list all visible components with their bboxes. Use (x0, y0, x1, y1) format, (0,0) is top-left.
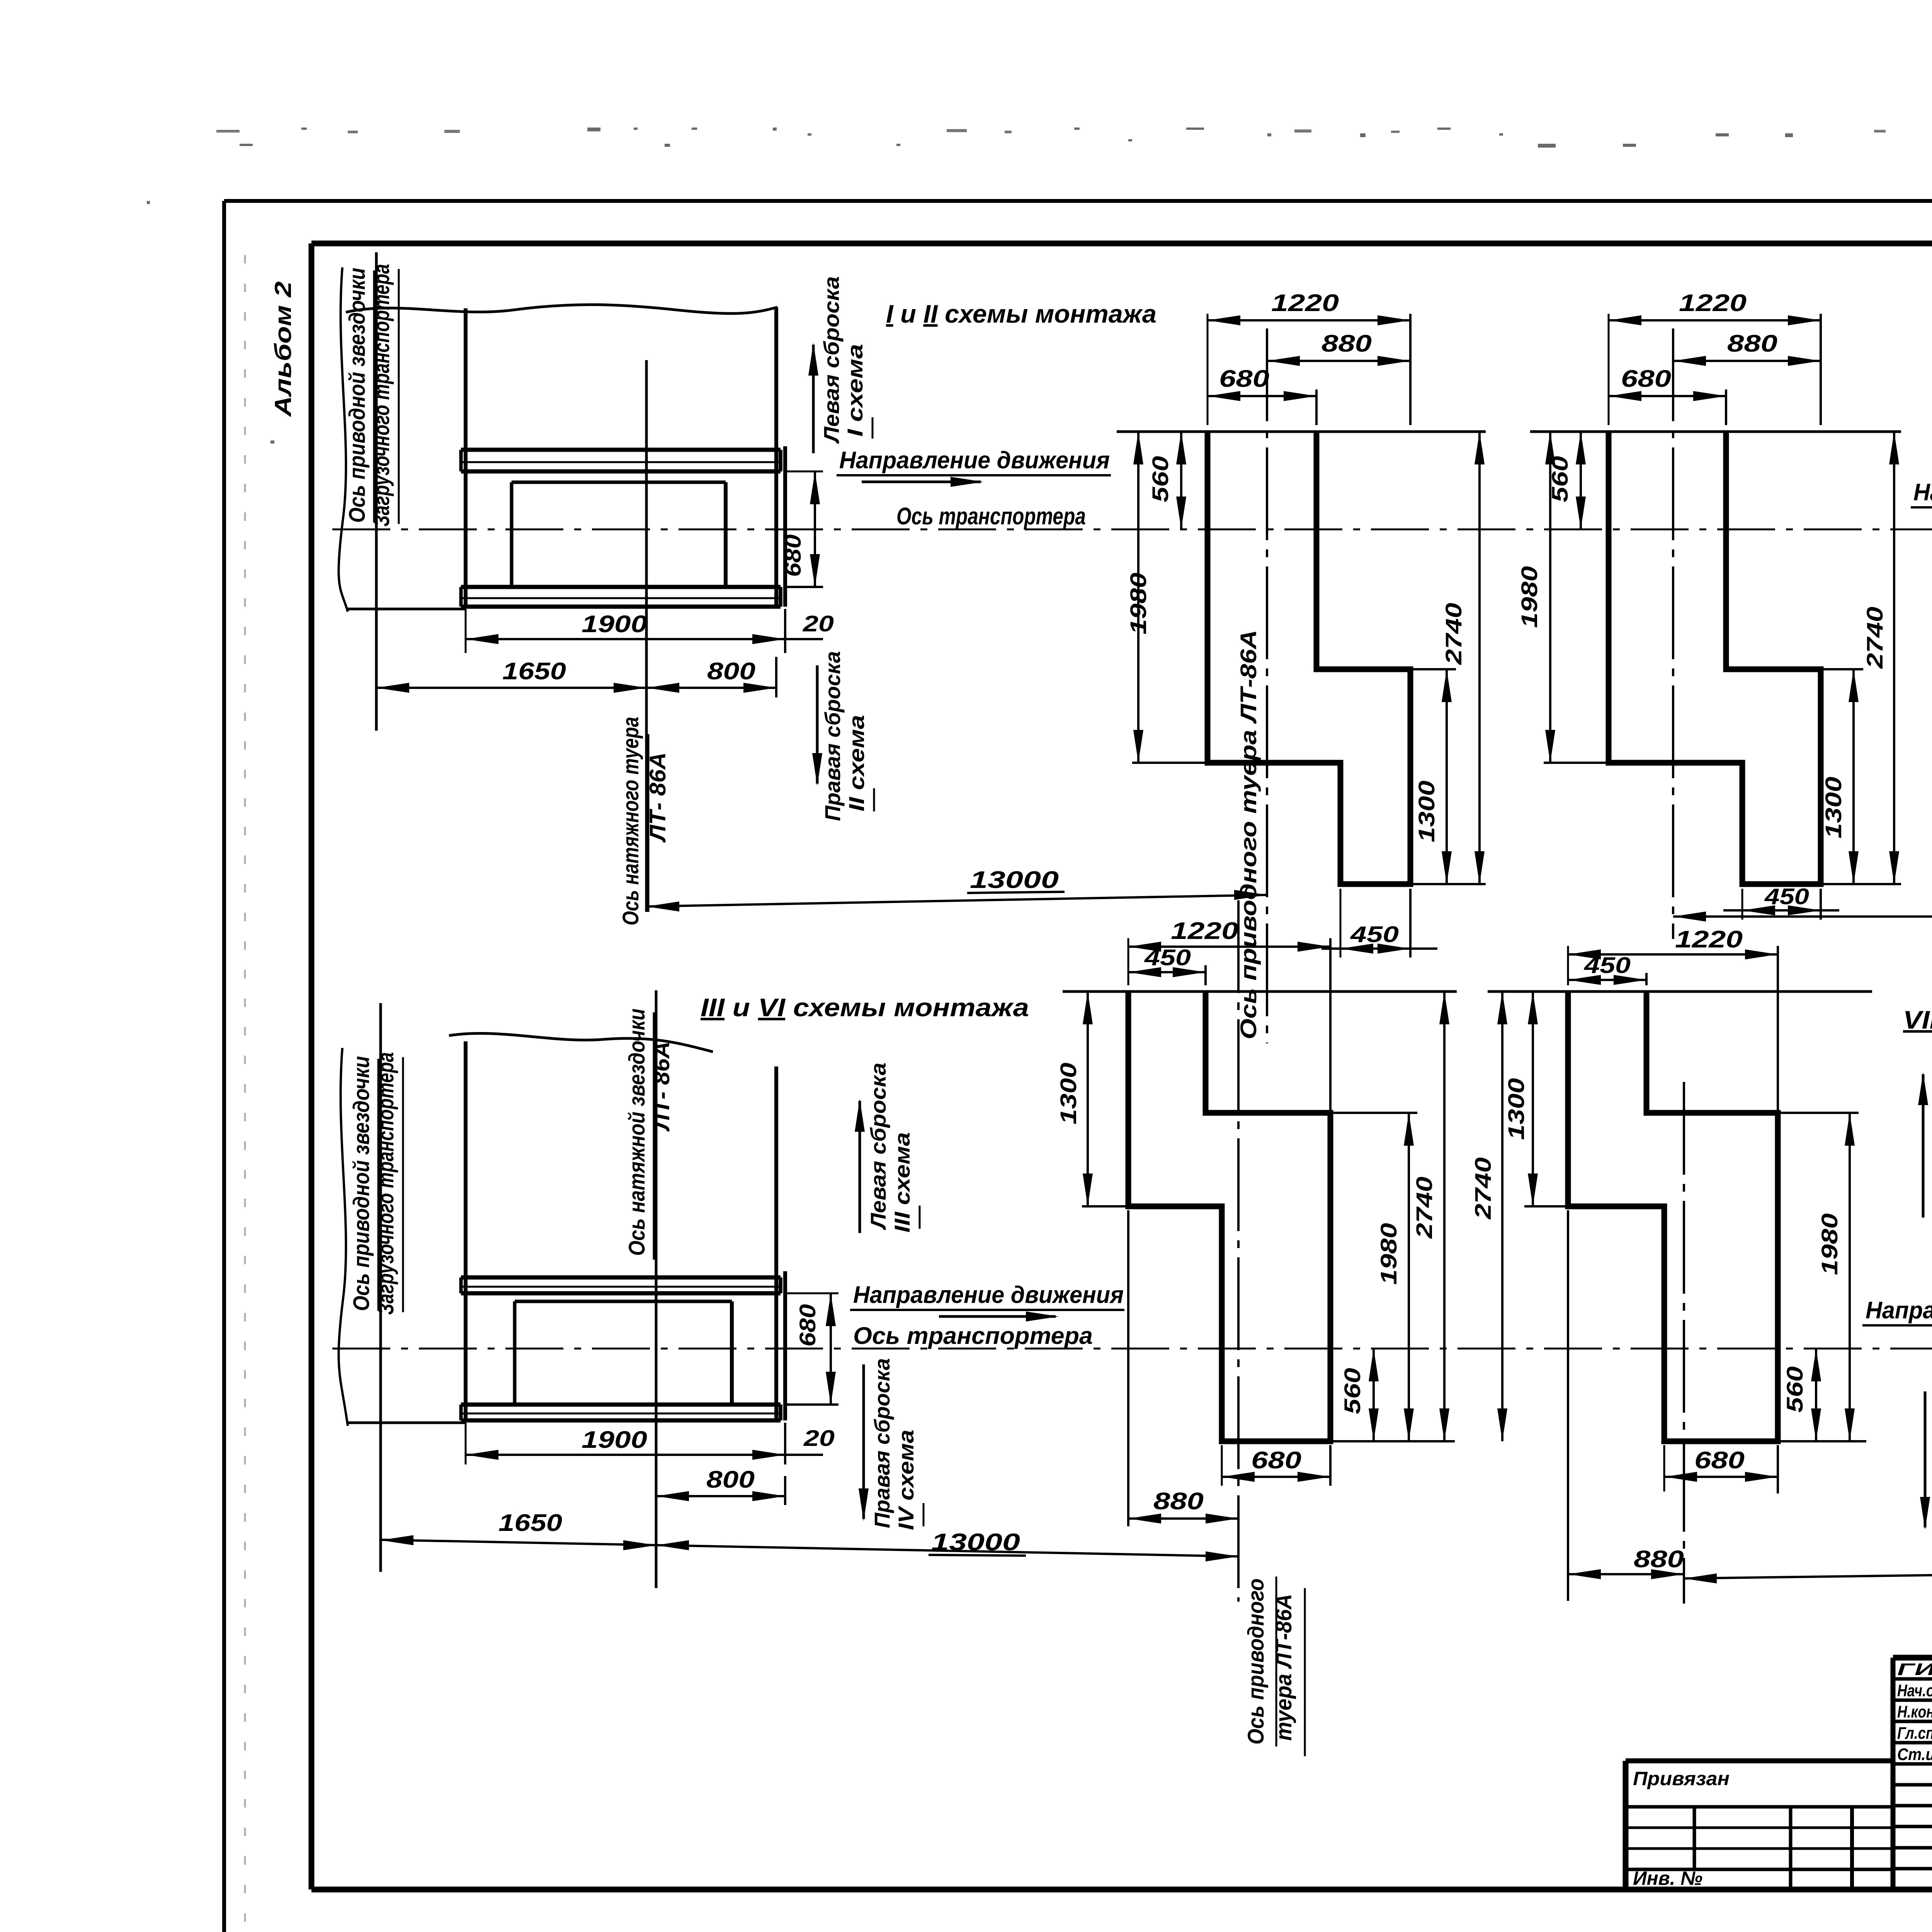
svg-text:Ось транспортера: Ось транспортера (896, 503, 1086, 530)
axis line - conveyor center top row (332, 529, 1932, 531)
lower rail BL (461, 1405, 781, 1420)
outer sheet frame (224, 201, 1932, 1932)
svg-text:680: 680 (795, 1304, 820, 1347)
svg-text:680: 680 (1621, 366, 1671, 392)
dimension 2740 F4 (1471, 992, 1568, 1441)
svg-text:20: 20 (803, 1426, 835, 1451)
svg-text:1900: 1900 (582, 1427, 647, 1453)
sheet background noise specks (147, 128, 1932, 444)
label axis drive tuer F3 (1243, 1577, 1305, 1756)
dimension 1220 F2 (1609, 290, 1821, 425)
label axis tension tuer TL (618, 717, 670, 925)
dimension 1980 F2 (1517, 432, 1609, 763)
svg-text:Ось натяжной звездочки: Ось натяжной звездочки (624, 1009, 650, 1256)
dimension 1980 F3 (1330, 1113, 1417, 1441)
title block personnel table (1893, 1658, 1932, 1889)
dimension 880 F4 (1568, 1210, 1684, 1601)
svg-text:2740: 2740 (1862, 607, 1888, 669)
conveyor body right edge TL (774, 307, 778, 607)
svg-text:2740: 2740 (1412, 1177, 1437, 1239)
foundation outline F4 (1568, 992, 1778, 1441)
svg-text:Направление движения: Направление движения (853, 1282, 1124, 1308)
inner drawing frame (311, 243, 1932, 1889)
svg-text:III схема: III схема (890, 1132, 914, 1233)
svg-text:1300: 1300 (1414, 781, 1439, 842)
svg-text:Инв. №: Инв. № (1633, 1867, 1702, 1889)
dimension 13000 top right (1673, 887, 1932, 922)
svg-text:Гл.спец.: Гл.спец. (1897, 1724, 1932, 1743)
dimension 1220 F4 (1568, 926, 1778, 1113)
svg-text:ЛТ- 86А: ЛТ- 86А (649, 1041, 674, 1132)
handwritten note below title block (1816, 1930, 1932, 1932)
dimension 1650 and 13000 bottom left (381, 1510, 1238, 1561)
dimension 680 F3 (1222, 1445, 1330, 1486)
svg-text:Левая сброска: Левая сброска (866, 1063, 890, 1230)
axis drive sprocket of loading conveyor BL (379, 1003, 382, 1572)
left margin fold shadow (244, 255, 246, 1932)
ground line shape F1 (1117, 430, 1486, 433)
lower rail TL (461, 587, 781, 607)
svg-text:1650: 1650 (498, 1510, 562, 1536)
conveyor body outer right edge TL (783, 446, 787, 607)
svg-text:1300: 1300 (1504, 1078, 1529, 1140)
svg-text:I и II схемы монтажа: I и II схемы монтажа (886, 299, 1156, 328)
svg-text:2740: 2740 (1441, 603, 1466, 665)
svg-text:560: 560 (1340, 1368, 1365, 1414)
dimension 680 F4 (1664, 1445, 1778, 1493)
foundation outline F3 (1128, 992, 1330, 1441)
svg-text:680: 680 (1251, 1447, 1301, 1474)
svg-text:II схема: II схема (844, 715, 869, 811)
svg-text:13000: 13000 (931, 1529, 1020, 1556)
svg-text:450: 450 (1764, 884, 1809, 909)
axis drive tuer F3 (1237, 900, 1240, 1602)
svg-text:Направление движения: Направление движения (1913, 479, 1932, 506)
svg-text:Ось приводного туера ЛТ-86А: Ось приводного туера ЛТ-86А (1236, 630, 1261, 1039)
svg-text:Привязан: Привязан (1633, 1768, 1730, 1789)
foundation outline F1 (1207, 432, 1410, 884)
drop arrow right discharge scheme VII (1918, 1049, 1932, 1229)
svg-text:VII и VIII схемы монтажа: VII и VIII схемы монтажа (1903, 1005, 1932, 1034)
break line top of conveyor BL (449, 1033, 713, 1052)
svg-text:Касикова и Глебов: Касикова и Глебов (1816, 1930, 1932, 1932)
svg-text:Ось приводной звездочки: Ось приводной звездочки (345, 268, 370, 523)
break line left side BL (338, 1048, 348, 1426)
svg-text:800: 800 (706, 1466, 755, 1493)
axis tension sprocket BL (655, 990, 658, 1588)
direction of movement label BR (1862, 1297, 1932, 1340)
dimension 680 F2 (1609, 366, 1726, 425)
svg-text:Нач.отд: Нач.отд (1897, 1681, 1932, 1700)
axis drive sprocket of loading conveyor TL (375, 252, 378, 731)
svg-text:680: 680 (1219, 366, 1269, 392)
dimension 1220 F1 (1207, 290, 1410, 425)
drop arrow left discharge scheme I (808, 276, 872, 453)
svg-text:1220: 1220 (1675, 926, 1743, 953)
dimension 13000 bottom right (1684, 1544, 1932, 1583)
dimension 560 F4 (1778, 1349, 1866, 1441)
dimension 450 F2 (1723, 884, 1839, 920)
dimension 2740 F3 (1330, 992, 1455, 1441)
direction of movement label BL (850, 1282, 1124, 1321)
drop arrow right discharge scheme IV (859, 1358, 923, 1530)
conveyor body left edge BL (464, 1041, 468, 1420)
break line left side TL (338, 267, 348, 612)
ground line shape F4 (1488, 990, 1872, 993)
dimension 1220 F3 (1128, 918, 1330, 1113)
conveyor body left edge TL (464, 308, 468, 607)
title schemes I and II (886, 299, 1156, 328)
dimension 1900 and 20 BL (466, 1423, 835, 1464)
svg-text:Правая сброска: Правая сброска (870, 1358, 894, 1528)
dimension 560 F3 (1340, 1349, 1379, 1441)
svg-text:ГИП: ГИП (1897, 1660, 1932, 1679)
dimension 680 BL (786, 1293, 838, 1405)
dimension 13000 top left (646, 867, 1267, 912)
dimension 560 F1 (1148, 432, 1186, 529)
axis drive tuer F4 (1683, 1082, 1685, 1604)
svg-text:1220: 1220 (1171, 918, 1238, 944)
svg-text:450: 450 (1584, 953, 1631, 978)
svg-text:Загрузочного транспортера: Загрузочного транспортера (373, 1052, 398, 1315)
svg-text:Направление движения: Направление движения (1866, 1297, 1932, 1324)
upper rail TL (461, 450, 781, 471)
conveyor body right edge BL (774, 1066, 778, 1420)
upper rail BL (461, 1277, 781, 1293)
svg-text:1650: 1650 (502, 658, 566, 685)
svg-text:680: 680 (1694, 1447, 1745, 1474)
ground line lower left TL (347, 608, 466, 611)
foundation outline F2 (1609, 432, 1821, 884)
svg-text:Направление движения: Направление движения (839, 447, 1110, 474)
foundation box BL (515, 1301, 732, 1405)
dimension 450 F3 (1128, 945, 1206, 985)
svg-text:1980: 1980 (1126, 573, 1151, 634)
conveyor body outer right edge BL (783, 1271, 787, 1420)
svg-text:13000: 13000 (970, 867, 1059, 893)
axis tension tuer TL (645, 360, 648, 912)
svg-text:1900: 1900 (582, 611, 647, 638)
dimension 680 F1 (1207, 366, 1316, 425)
dimension 1900 and 20 TL (466, 609, 834, 653)
ground line lower left BL (347, 1422, 466, 1424)
svg-text:I схема: I схема (843, 344, 867, 437)
svg-text:560: 560 (1148, 456, 1173, 502)
svg-text:20: 20 (803, 611, 834, 636)
ground line shape F3 (1063, 990, 1457, 993)
svg-text:880: 880 (1727, 330, 1777, 357)
svg-text:IV схема: IV схема (894, 1430, 918, 1530)
label axis tension sprocket BL (624, 1009, 674, 1260)
svg-text:1220: 1220 (1679, 290, 1747, 316)
direction of movement label TL (837, 447, 1111, 487)
direction of movement label TR (1911, 479, 1932, 522)
svg-text:450: 450 (1144, 945, 1191, 970)
label axis drive sprocket TL (345, 264, 399, 527)
dimension 800 BL (656, 1466, 785, 1505)
svg-text:Ст.инж: Ст.инж (1897, 1745, 1932, 1764)
dimension 2740 F1 (1410, 432, 1486, 884)
ground line shape F2 (1530, 430, 1901, 433)
dimension 1300 F2 (1821, 669, 1863, 884)
top noise dotted row extension (216, 128, 1932, 133)
svg-text:Ось приводного: Ось приводного (1243, 1578, 1269, 1745)
dimension 1650 and 800 TL (376, 657, 776, 697)
drop arrow left discharge scheme VIII (1920, 1374, 1932, 1550)
dimension 2740 F2 (1821, 432, 1901, 884)
drop arrow left discharge scheme III (855, 1063, 920, 1233)
dimension 1980 F4 (1778, 1113, 1859, 1441)
svg-text:880: 880 (1153, 1488, 1204, 1515)
svg-text:Правая сброска: Правая сброска (820, 651, 845, 821)
svg-text:880: 880 (1321, 330, 1372, 357)
axis drive tuer F2 (1672, 328, 1674, 939)
drop arrow right discharge scheme II (812, 651, 874, 821)
svg-text:1300: 1300 (1056, 1063, 1081, 1124)
svg-text:1980: 1980 (1376, 1223, 1401, 1285)
svg-text:Ось натяжного туера: Ось натяжного туера (618, 717, 643, 925)
dimension 1300 F3 (1056, 992, 1128, 1206)
svg-text:800: 800 (707, 658, 755, 685)
svg-text:450: 450 (1350, 922, 1399, 947)
svg-text:Левая сброска: Левая сброска (819, 276, 844, 444)
svg-text:Ось транспортера: Ось транспортера (853, 1323, 1093, 1349)
dimension 680 TL (781, 471, 823, 587)
label axis drive sprocket BL (349, 1052, 403, 1315)
personnel names (1897, 1659, 1932, 1764)
svg-text:III и VI схемы монтажа: III и VI схемы монтажа (701, 993, 1029, 1022)
svg-text:1980: 1980 (1817, 1213, 1842, 1275)
break line top of loading conveyor TL (346, 304, 777, 313)
svg-text:1220: 1220 (1271, 290, 1339, 316)
svg-text:560: 560 (1782, 1366, 1808, 1413)
dimension 880 F1 (1267, 330, 1410, 366)
binding table left (1626, 1761, 1893, 1889)
svg-text:Н.контр: Н.контр (1897, 1702, 1932, 1721)
axis line - conveyor center bottom row (332, 1348, 1932, 1350)
axis drive tuer F1 (1266, 328, 1268, 1043)
dimension 1300 F1 (1410, 669, 1456, 884)
foundation box TL (512, 482, 726, 587)
svg-text:ЛТ- 86А: ЛТ- 86А (645, 752, 670, 843)
svg-text:Ось приводной звездочки: Ось приводной звездочки (349, 1056, 374, 1311)
svg-text:Загрузочного транспортера: Загрузочного транспортера (369, 264, 394, 527)
dimension 1300 F4 (1504, 992, 1538, 1206)
dimension 1980 F1 (1126, 432, 1207, 763)
svg-text:Альбом 2: Альбом 2 (270, 281, 296, 417)
dimension 450 F1 (1321, 889, 1437, 957)
dimension 560 F2 (1548, 432, 1586, 529)
svg-text:туера ЛТ-86А: туера ЛТ-86А (1271, 1594, 1296, 1741)
dimension 880 F3 (1128, 1210, 1238, 1526)
svg-text:1980: 1980 (1517, 566, 1542, 628)
svg-text:1300: 1300 (1821, 777, 1846, 838)
svg-text:2740: 2740 (1471, 1157, 1496, 1219)
dimension 450 F4 (1568, 953, 1646, 985)
svg-text:680: 680 (781, 534, 806, 577)
svg-text:880: 880 (1634, 1546, 1684, 1573)
dimension 880 F2 (1673, 330, 1821, 366)
